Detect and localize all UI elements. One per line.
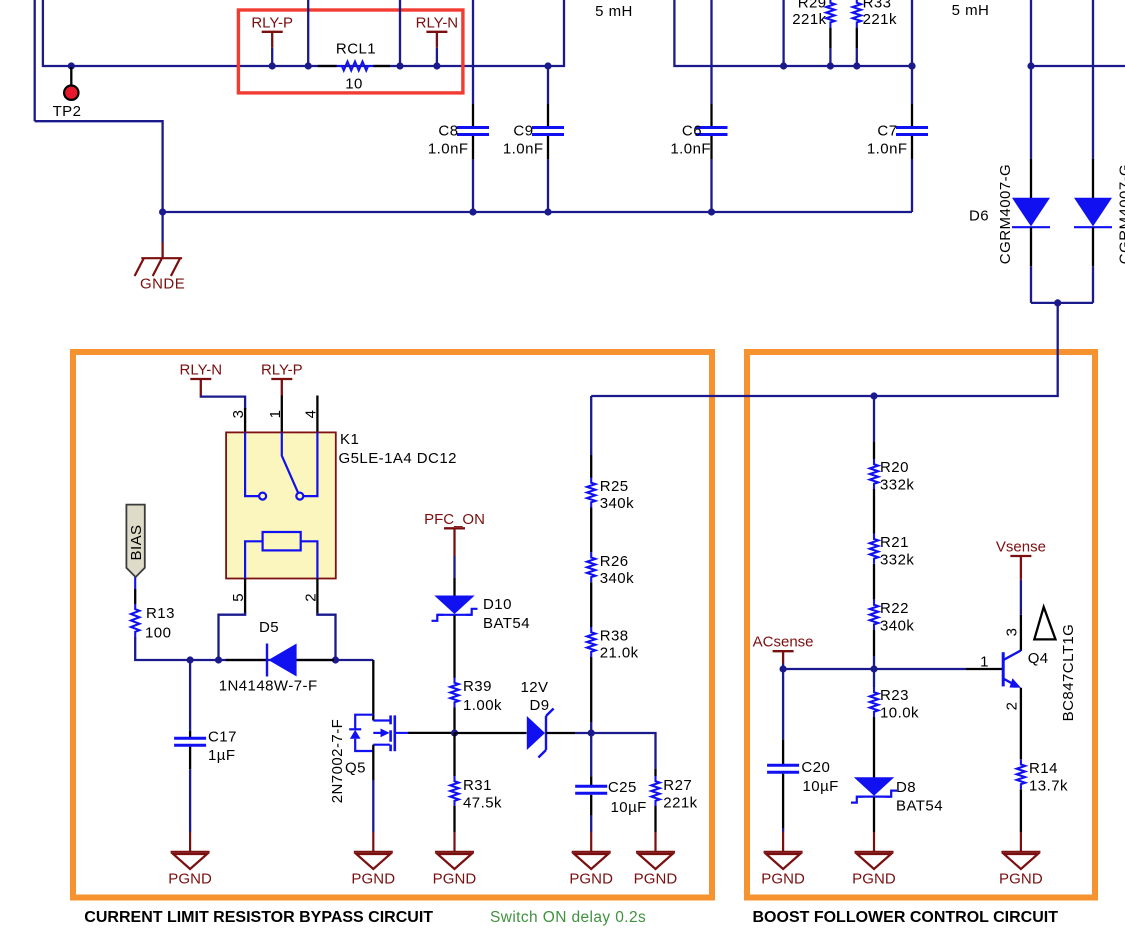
- ground PGND (Q5): [354, 832, 393, 869]
- svg-text:D10: D10: [483, 596, 512, 613]
- wire divider top: [590, 396, 592, 455]
- pin R38 bottom lead: [590, 657, 592, 722]
- wire RLY-P stub: [271, 48, 273, 66]
- svg-text:10.0k: 10.0k: [880, 705, 919, 722]
- pin Q5 drain lead: [372, 660, 374, 721]
- svg-text:13.7k: 13.7k: [1029, 778, 1068, 795]
- capacitor C20: [767, 765, 799, 772]
- node C7 top junction: [908, 62, 915, 69]
- svg-text:2N7002-7-F: 2N7002-7-F: [329, 719, 346, 804]
- diode D5: [267, 644, 297, 677]
- pin Q5 gate lead: [408, 732, 455, 734]
- pin C7 top lead: [911, 104, 913, 126]
- svg-text:340k: 340k: [600, 570, 634, 587]
- pin C20 top lead: [782, 739, 784, 764]
- pin R25-R26 lead: [590, 508, 592, 553]
- pin D6-2 cathode lead: [1092, 228, 1094, 267]
- svg-text:D8: D8: [896, 779, 916, 796]
- pin C17 top lead: [189, 731, 191, 737]
- resistor R25: [587, 478, 595, 508]
- ground PGND (C20): [764, 832, 803, 869]
- resistor R39: [450, 678, 458, 708]
- svg-text:Vsense: Vsense: [996, 539, 1046, 556]
- wire RLY-N stem maroon: [200, 379, 202, 396]
- pin Q4 emitter lead: [1020, 688, 1022, 760]
- node C9 top junction: [544, 62, 551, 69]
- node TP2 junction: [68, 62, 75, 69]
- pin K1 pin2: [316, 579, 318, 615]
- resistor R20: [870, 459, 878, 489]
- capacitor C17: [174, 738, 206, 745]
- svg-text:C7: C7: [877, 123, 897, 140]
- wire top rail middle segment: [674, 0, 912, 66]
- svg-text:K1: K1: [340, 431, 359, 448]
- transistor Q5 2N7002: [349, 715, 395, 752]
- wire Vsense stem maroon: [1020, 556, 1022, 580]
- svg-text:R31: R31: [463, 777, 492, 794]
- node C17 junction: [187, 656, 194, 663]
- node R20 top junction: [870, 392, 877, 399]
- svg-text:2: 2: [303, 593, 320, 602]
- svg-text:1µF: 1µF: [208, 747, 236, 764]
- resistor R26: [587, 552, 595, 582]
- relay K1 body: [226, 432, 336, 578]
- pin R27 top lead: [654, 769, 656, 776]
- wire gate to D9: [455, 732, 527, 734]
- wire D6a upper: [1030, 66, 1032, 159]
- svg-text:4: 4: [303, 410, 320, 419]
- svg-text:PGND: PGND: [999, 870, 1043, 887]
- svg-text:BAT54: BAT54: [896, 798, 943, 815]
- wire ACsense stem maroon: [782, 651, 784, 663]
- node C25 junction: [588, 729, 595, 736]
- svg-text:D9: D9: [529, 697, 549, 714]
- wire RLY-N stub: [436, 48, 438, 66]
- wire RLY-N stub maroon: [436, 32, 438, 48]
- net label RLY-P (relay): [261, 362, 303, 380]
- pin BIAS to R13: [134, 589, 136, 604]
- svg-text:PFC_ON: PFC_ON: [424, 511, 485, 528]
- wire base rail: [783, 668, 966, 670]
- resistor R29: [826, 0, 834, 28]
- net label RLY-P (top): [251, 14, 293, 32]
- svg-text:R39: R39: [463, 678, 492, 695]
- node RLY-P junction: [269, 62, 276, 69]
- svg-text:D5: D5: [259, 619, 279, 636]
- node C6 bottom junction: [708, 208, 715, 215]
- svg-text:47.5k: 47.5k: [463, 795, 502, 812]
- wire C6 branch lower: [710, 159, 712, 212]
- node D6 output junction: [1054, 299, 1061, 306]
- wire PFC_ON stem maroon: [453, 528, 455, 556]
- svg-text:R14: R14: [1029, 760, 1058, 777]
- pin GNDE stem maroon: [161, 242, 163, 258]
- node R22-R23 junction: [870, 665, 877, 672]
- svg-text:12V: 12V: [520, 679, 548, 696]
- wire TP2 stem: [70, 67, 72, 86]
- wire bottom rail: [163, 211, 912, 213]
- resistor R38: [587, 627, 595, 657]
- node pin2 junction: [332, 656, 339, 663]
- pin R23-D8 lead: [873, 717, 875, 778]
- svg-text:Q5: Q5: [345, 760, 366, 777]
- svg-text:BOOST FOLLOWER CONTROL CIRCUIT: BOOST FOLLOWER CONTROL CIRCUIT: [753, 909, 1059, 926]
- pin R22 bottom lead: [873, 630, 875, 656]
- pin R14 bottom lead: [1020, 789, 1022, 832]
- wire RLY-P stub maroon: [271, 32, 273, 48]
- transistor Q4 BC847CLT1G: [1003, 651, 1021, 688]
- wire C17 lower: [189, 769, 191, 832]
- wire top rail right segment: [1031, 0, 1125, 66]
- node R33 junction: [853, 62, 860, 69]
- svg-text:R23: R23: [880, 687, 909, 704]
- wire R20 top: [873, 396, 875, 442]
- pin R31 bottom lead: [453, 806, 455, 832]
- capacitor C8: [457, 128, 489, 135]
- pin K1 pin1: [281, 396, 283, 433]
- wire R38 to node: [590, 722, 592, 733]
- diode D9 zener 12V: [527, 709, 554, 758]
- ground PGND (R14): [1001, 832, 1040, 869]
- svg-text:PGND: PGND: [168, 870, 212, 887]
- wire into RCL1 right: [399, 0, 401, 66]
- node D6 rail junction: [1027, 62, 1034, 69]
- svg-text:3: 3: [1004, 628, 1021, 637]
- svg-text:R38: R38: [600, 628, 629, 645]
- svg-text:TP2: TP2: [53, 103, 82, 120]
- pin Q4 collector lead: [1020, 615, 1022, 651]
- svg-text:5 mH: 5 mH: [595, 3, 633, 20]
- svg-text:ACsense: ACsense: [753, 634, 814, 651]
- ground PGND (R31): [435, 832, 474, 869]
- svg-text:R25: R25: [600, 478, 629, 495]
- pin C20 bottom lead: [782, 774, 784, 829]
- svg-text:PGND: PGND: [852, 870, 896, 887]
- wire D6 cathode join: [1031, 302, 1093, 304]
- svg-text:G5LE-1A4 DC12: G5LE-1A4 DC12: [339, 450, 457, 467]
- resistor R22: [870, 600, 878, 630]
- pin C6 bottom lead: [710, 136, 712, 159]
- pin C9 bottom lead: [547, 136, 549, 159]
- relay K1 contact: pin3 arm: [245, 432, 266, 499]
- svg-text:PGND: PGND: [634, 870, 678, 887]
- svg-text:10: 10: [345, 76, 363, 93]
- svg-text:2: 2: [1004, 702, 1021, 711]
- wire R22 to base rail: [873, 656, 875, 669]
- svg-text:R22: R22: [880, 600, 909, 617]
- svg-text:R26: R26: [600, 553, 629, 570]
- svg-text:221k: 221k: [863, 11, 897, 28]
- svg-text:C17: C17: [208, 729, 237, 746]
- wire C9 branch upper: [547, 66, 549, 104]
- pin RCL1 right lead: [373, 65, 390, 67]
- svg-text:332k: 332k: [880, 477, 914, 494]
- net label PFC_ON: [424, 511, 485, 529]
- svg-text:332k: 332k: [880, 552, 914, 569]
- resistor R33: [853, 0, 861, 28]
- pin R31 top lead: [453, 733, 455, 776]
- node GNDE junction: [159, 208, 166, 215]
- wire C25 upper: [590, 733, 592, 776]
- wire D9 to C25 node: [575, 732, 591, 734]
- pin R25 top lead: [590, 455, 592, 478]
- svg-text:PGND: PGND: [569, 870, 613, 887]
- pin K1 pin3: [244, 408, 246, 432]
- wire C17 upper: [189, 660, 191, 731]
- capacitor C7: [896, 128, 928, 135]
- node RCL1 left junction: [305, 62, 312, 69]
- ground PGND (C25): [572, 832, 611, 869]
- svg-text:R13: R13: [146, 605, 175, 622]
- diode D8 BAT54: [851, 777, 897, 802]
- pin R29 lead: [829, 28, 831, 48]
- testpoint TP2: [64, 86, 78, 100]
- svg-text:RLY-N: RLY-N: [180, 362, 223, 379]
- relay K1 lever: pin1: [282, 432, 304, 499]
- svg-text:C6: C6: [682, 123, 702, 140]
- pin C8 bottom lead: [472, 136, 474, 159]
- svg-text:PGND: PGND: [433, 870, 477, 887]
- section box: current limit resistor bypass circuit: [73, 352, 712, 898]
- wire left-box rail: [135, 637, 373, 660]
- pin D9 cathode lead: [546, 732, 575, 734]
- wire into RCL1 left: [307, 0, 309, 66]
- wire ACsense stub: [782, 664, 784, 670]
- svg-text:C20: C20: [801, 759, 830, 776]
- node C7 top junction: [908, 62, 915, 69]
- svg-text:10µF: 10µF: [803, 778, 839, 795]
- resistor R14: [1017, 759, 1025, 789]
- node R29 junction: [827, 62, 834, 69]
- pin R20-R21 lead: [873, 489, 875, 534]
- resistor R31: [450, 776, 458, 806]
- pin D10-R39 lead: [453, 616, 455, 679]
- wire GNDE stem: [161, 212, 163, 242]
- svg-text:5: 5: [230, 593, 247, 602]
- pin R21-R22 lead: [873, 564, 875, 600]
- svg-text:R27: R27: [663, 777, 692, 794]
- wire C20 lower: [782, 829, 784, 832]
- wire RLY-P stem maroon: [281, 379, 283, 396]
- pin D6-2 anode lead: [1092, 159, 1094, 198]
- svg-text:21.0k: 21.0k: [600, 645, 639, 662]
- svg-text:RLY-N: RLY-N: [416, 14, 459, 31]
- pin D10 anode lead: [453, 578, 455, 596]
- svg-text:Q4: Q4: [1028, 650, 1049, 667]
- svg-text:RCL1: RCL1: [336, 41, 376, 58]
- pin K1 pin4: [316, 396, 318, 433]
- wire RLY-N jog to pin3: [201, 396, 245, 411]
- diode D6 element 1: [1012, 198, 1050, 227]
- node C9 bottom junction: [544, 208, 551, 215]
- node gate junction: [451, 729, 458, 736]
- node junction 784: [780, 62, 787, 69]
- pin C6 top lead: [710, 104, 712, 126]
- svg-text:221k: 221k: [792, 11, 826, 28]
- svg-text:R33: R33: [863, 0, 892, 12]
- wire Vsense to collector: [1020, 580, 1022, 615]
- resistor R23: [870, 687, 878, 717]
- svg-text:CURRENT LIMIT RESISTOR BYPASS: CURRENT LIMIT RESISTOR BYPASS CIRCUIT: [84, 909, 433, 926]
- svg-text:1.00k: 1.00k: [463, 697, 502, 714]
- wire C7 branch upper: [911, 0, 913, 104]
- wire C8 branch lower: [472, 159, 474, 212]
- pin C25 top lead: [590, 776, 592, 785]
- highlight box RCL1: [238, 10, 463, 93]
- marker triangle (Q4 variant): [1034, 607, 1055, 640]
- svg-text:340k: 340k: [600, 495, 634, 512]
- capacitor C6: [696, 128, 728, 135]
- svg-text:CGRM4007-G: CGRM4007-G: [997, 164, 1014, 264]
- node RCL1 right junction: [396, 62, 403, 69]
- pin D6-1 anode lead: [1030, 159, 1032, 198]
- wire branch at 784: [782, 0, 784, 66]
- pin R33 lead: [856, 28, 858, 48]
- svg-text:RLY-P: RLY-P: [261, 362, 303, 379]
- wire D6b upper: [1092, 0, 1094, 159]
- pin C7 bottom lead: [911, 136, 913, 159]
- pin C25 bottom lead: [590, 795, 592, 815]
- net label ACsense: [753, 634, 814, 652]
- pin C8 top lead: [472, 104, 474, 126]
- svg-text:1: 1: [980, 654, 989, 671]
- svg-text:PGND: PGND: [351, 870, 395, 887]
- pin R39 bottom lead: [453, 708, 455, 734]
- svg-text:R21: R21: [880, 534, 909, 551]
- relay K1 coil: [245, 532, 317, 579]
- wire to R27: [591, 733, 655, 769]
- wire R29 to rail: [829, 48, 831, 66]
- net label Vsense: [996, 539, 1046, 557]
- diode D6 element 2: [1074, 198, 1112, 227]
- wire C20 upper: [782, 669, 784, 739]
- svg-text:C8: C8: [438, 123, 458, 140]
- wire Q5 source to ground: [372, 780, 374, 832]
- svg-text:C25: C25: [608, 779, 637, 796]
- net flag BIAS: [126, 505, 144, 577]
- svg-text:Switch ON delay 0.2s: Switch ON delay 0.2s: [490, 909, 646, 926]
- svg-text:1: 1: [267, 410, 284, 419]
- wire R33 to rail: [856, 48, 858, 66]
- resistor R21: [870, 534, 878, 564]
- wire C9 branch lower: [547, 159, 549, 212]
- wire C6 branch upper: [710, 0, 712, 104]
- pin Q4 base lead: [966, 668, 1002, 670]
- pin D5 cathode lead: [226, 659, 266, 661]
- ground PGND (D8): [855, 832, 894, 869]
- pin Q5 gate stub: [396, 732, 409, 734]
- ground GNDE earth symbol: [135, 258, 183, 276]
- wire D6-1 lower: [1030, 266, 1032, 303]
- wire C25 lower: [590, 815, 592, 832]
- svg-text:RLY-P: RLY-P: [251, 14, 293, 31]
- svg-text:1.0nF: 1.0nF: [428, 141, 469, 158]
- pin D6-1 cathode lead: [1030, 228, 1032, 267]
- pin Q5 source lead: [372, 745, 374, 780]
- svg-text:GNDE: GNDE: [140, 276, 185, 293]
- svg-text:100: 100: [145, 625, 171, 642]
- wire C7 branch lower: [911, 159, 913, 212]
- svg-text:221k: 221k: [663, 795, 697, 812]
- capacitor C9: [532, 128, 564, 135]
- svg-text:PGND: PGND: [761, 870, 805, 887]
- relay K1 contact: pin4 arm: [304, 432, 318, 496]
- node RLY-N junction: [433, 62, 440, 69]
- svg-text:D6: D6: [969, 208, 989, 225]
- node C8 bottom junction: [469, 208, 476, 215]
- net label RLY-N (top): [416, 14, 459, 32]
- pin D8 cathode lead: [873, 797, 875, 832]
- svg-text:10µF: 10µF: [611, 799, 647, 816]
- resistor R13: [131, 604, 139, 637]
- svg-text:1.0nF: 1.0nF: [670, 141, 711, 158]
- svg-text:R29: R29: [798, 0, 827, 12]
- pin C9 top lead: [547, 104, 549, 126]
- wire D6-2 lower: [1092, 266, 1094, 303]
- wire left vertical from top: [34, 0, 36, 121]
- svg-text:340k: 340k: [880, 618, 914, 635]
- svg-text:3: 3: [230, 410, 247, 419]
- svg-text:CGRM4007-G: CGRM4007-G: [1116, 164, 1125, 264]
- wire D6 output to divider rail: [591, 303, 1057, 396]
- svg-text:1.0nF: 1.0nF: [503, 141, 544, 158]
- svg-text:R20: R20: [880, 459, 909, 476]
- pin BIAS stub: [134, 577, 136, 589]
- pin R20 top lead: [873, 442, 875, 459]
- section box: boost follower control circuit: [747, 352, 1095, 898]
- wire C8 branch upper: [472, 0, 474, 104]
- wire R23 top lead: [873, 669, 875, 687]
- resistor R27: [651, 776, 659, 806]
- wire pin5 to rail: [219, 613, 246, 661]
- pin R26-R38 lead: [590, 582, 592, 627]
- svg-text:C9: C9: [513, 123, 533, 140]
- resistor RCL1: [337, 62, 374, 71]
- net label RLY-N (relay): [180, 362, 223, 380]
- node ACsense junction: [780, 665, 787, 672]
- node pin5 junction: [215, 656, 222, 663]
- svg-text:5 mH: 5 mH: [952, 2, 990, 19]
- svg-text:BIAS: BIAS: [128, 525, 145, 561]
- ground PGND (C17): [171, 832, 210, 869]
- pin R27 bottom lead: [654, 806, 656, 832]
- wire pin2 to rail: [317, 613, 335, 661]
- capacitor C25: [575, 786, 607, 793]
- diode D10 BAT54: [432, 596, 478, 621]
- svg-text:1.0nF: 1.0nF: [867, 141, 908, 158]
- pin D5 anode lead: [297, 659, 334, 661]
- pin C17 bottom lead: [189, 747, 191, 770]
- svg-text:BAT54: BAT54: [483, 615, 530, 632]
- wire jog to GNDE node: [35, 121, 163, 212]
- wire top rail left segment: [43, 0, 564, 66]
- pin RCL1 left lead: [318, 65, 337, 67]
- ground PGND (R27): [636, 832, 675, 869]
- svg-text:BC847CLT1G: BC847CLT1G: [1060, 624, 1077, 722]
- wire PFC_ON stub: [453, 556, 455, 578]
- svg-text:1N4148W-7-F: 1N4148W-7-F: [219, 678, 318, 695]
- pin K1 pin5: [244, 579, 246, 615]
